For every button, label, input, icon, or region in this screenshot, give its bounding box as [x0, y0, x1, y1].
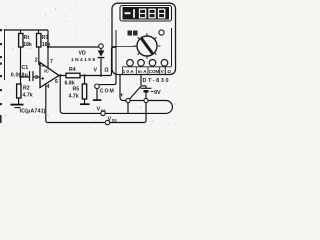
svg-text:COM: COM [100, 89, 114, 95]
svg-text:18k: 18k [42, 42, 51, 48]
svg-text:V-Ω: V-Ω [94, 68, 109, 74]
svg-text:VD: VD [79, 51, 86, 57]
svg-text:+: + [120, 92, 124, 99]
svg-text:4.7k: 4.7k [23, 93, 33, 99]
svg-text:IC: IC [44, 69, 49, 75]
svg-text:7: 7 [50, 59, 53, 65]
svg-text:6.8k: 6.8k [65, 80, 75, 86]
svg-text:IC(μA741): IC(μA741) [20, 109, 46, 115]
svg-text:4: 4 [47, 84, 50, 90]
svg-text:SS: SS [112, 119, 118, 123]
svg-text:mA: mA [138, 69, 148, 74]
svg-text:DT-830: DT-830 [143, 78, 169, 84]
svg-text:2: 2 [35, 58, 38, 64]
svg-text:10A: 10A [123, 69, 135, 74]
svg-text:R4: R4 [69, 67, 76, 73]
svg-text:COM: COM [149, 69, 160, 74]
svg-text:3: 3 [35, 75, 38, 81]
svg-text:C1: C1 [22, 65, 29, 71]
svg-text:0.068μ: 0.068μ [11, 73, 28, 79]
svg-text:9V: 9V [154, 90, 161, 96]
svg-text:DS: DS [101, 109, 107, 113]
svg-text:R1: R1 [42, 35, 49, 41]
svg-text:18k: 18k [23, 42, 32, 48]
svg-text:4.7k: 4.7k [69, 94, 79, 100]
svg-text:R2: R2 [23, 86, 30, 92]
svg-text:R5: R5 [73, 87, 80, 93]
svg-text:6: 6 [55, 79, 58, 85]
svg-text:1N4158: 1N4158 [71, 57, 95, 63]
